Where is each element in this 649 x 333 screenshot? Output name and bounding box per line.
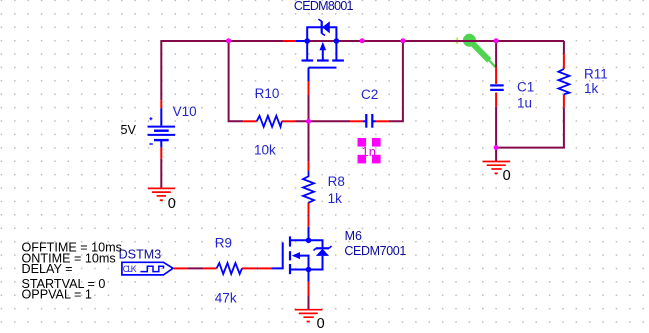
resistor R8 xyxy=(303,171,314,203)
pin stub U1 source xyxy=(283,40,296,42)
svg-text:R10: R10 xyxy=(255,86,280,101)
channel bars xyxy=(302,59,314,61)
probe marker tick xyxy=(456,38,458,44)
pin stub C2 right xyxy=(376,120,389,122)
node junction top C2 branch xyxy=(400,38,405,43)
gate lead xyxy=(271,242,282,268)
capacitor C1 xyxy=(490,85,504,90)
wire C1 bottom to ground node xyxy=(495,107,497,162)
pin stub C2 left xyxy=(350,120,363,122)
svg-text:CEDM7001: CEDM7001 xyxy=(344,244,406,258)
wire node down to R8 xyxy=(308,121,310,161)
node junction top R10 branch xyxy=(226,38,231,43)
svg-text:1k: 1k xyxy=(328,191,343,206)
pin stub V10 plus xyxy=(160,100,162,108)
resistor R10 xyxy=(257,116,282,127)
wire gate of U1 down to node xyxy=(308,95,310,122)
pin stub R11 bottom xyxy=(563,94,565,108)
parameter text block 1 xyxy=(22,241,122,276)
pin stub R10 right xyxy=(282,120,295,122)
body diode loop xyxy=(309,240,323,248)
wire top net horizontal right xyxy=(307,40,564,42)
flag outline xyxy=(122,262,173,275)
wire C2 right up to top xyxy=(389,41,403,121)
svg-text:47k: 47k xyxy=(215,290,237,305)
wire R11 top vertical xyxy=(563,41,565,54)
resistor R9 xyxy=(217,263,242,274)
svg-text:0: 0 xyxy=(317,316,325,332)
parameter text block 2 xyxy=(22,277,106,302)
junction dot U1 source xyxy=(304,38,310,44)
selection handles C2 value xyxy=(358,138,381,163)
svg-text:1u: 1u xyxy=(517,96,532,111)
pin stub DSTM3 out xyxy=(174,267,187,269)
pin stub M6 source xyxy=(308,282,310,296)
ground under M6 xyxy=(295,310,323,322)
transistor U1 CEDM8001 PMOS xyxy=(302,19,344,81)
zener hook top xyxy=(318,19,321,21)
svg-text:1n: 1n xyxy=(362,144,376,159)
pin stub R11 top xyxy=(563,54,565,69)
svg-text:C2: C2 xyxy=(361,87,378,102)
wire C1 node to R11 bottom xyxy=(496,108,564,148)
wire top to C1 xyxy=(495,41,497,67)
junction dot U1 drain xyxy=(334,38,340,44)
substrate arrow U1 xyxy=(320,42,327,50)
svg-text:R11: R11 xyxy=(584,66,608,81)
pin stub R9 left xyxy=(203,267,216,269)
diode cathode bar xyxy=(321,21,323,34)
pin stub R10 left xyxy=(243,120,257,122)
pin stub M6 drain xyxy=(308,217,310,227)
wire V10 top vertical xyxy=(160,40,162,100)
wire M6 source to ground xyxy=(308,295,310,309)
resistor R11 xyxy=(558,69,569,94)
pin stub R9 right xyxy=(242,267,256,269)
pin stub R8 top xyxy=(308,161,310,171)
ground under C1 xyxy=(483,162,510,174)
gate lead xyxy=(308,68,310,81)
pin stub M6 gate xyxy=(258,267,271,269)
svg-text:1k: 1k xyxy=(584,81,599,96)
gate plate xyxy=(309,67,337,69)
svg-text:5V: 5V xyxy=(121,123,137,137)
pin stub R8 bottom xyxy=(308,202,310,214)
junction dot M6 source xyxy=(306,267,312,273)
svg-text:0: 0 xyxy=(168,196,176,212)
node junction R10 R8 gate xyxy=(306,119,311,124)
node junction top mid xyxy=(360,38,365,43)
svg-text:0: 0 xyxy=(503,168,511,184)
zener hook bottom xyxy=(322,33,325,35)
svg-text:V10: V10 xyxy=(173,104,197,119)
svg-text:M6: M6 xyxy=(345,229,362,243)
diode triangle M6 xyxy=(316,249,329,256)
wire R10 to C2 row xyxy=(295,120,350,122)
svg-text:OPPVAL = 1: OPPVAL = 1 xyxy=(22,287,92,301)
node junction top C1 branch xyxy=(494,38,499,43)
svg-text:CLK: CLK xyxy=(123,264,137,274)
zener hook left xyxy=(314,248,316,250)
voltage probe xyxy=(463,34,496,68)
wire DSTM3 to R9 xyxy=(187,267,203,269)
svg-text:R9: R9 xyxy=(215,236,232,251)
substrate arrow M6 xyxy=(292,252,300,259)
wire R8 to M6 drain xyxy=(308,215,310,217)
ground under V10 xyxy=(148,188,175,200)
svg-text:C1: C1 xyxy=(517,80,534,95)
wire branch to R10 xyxy=(229,41,244,121)
body diode loop xyxy=(307,27,336,41)
zener hook right xyxy=(329,246,332,248)
pin stub V10 minus xyxy=(160,147,162,159)
pin stub C1 bottom xyxy=(495,93,497,107)
diode cathode bar xyxy=(316,247,329,249)
svg-text:DSTM3: DSTM3 xyxy=(119,247,162,261)
lead U1 source blue xyxy=(296,40,306,42)
node junction C1 ground xyxy=(494,145,499,150)
body stub xyxy=(300,256,309,270)
wire R9 to M6 gate xyxy=(256,267,258,269)
svg-text:DELAY =: DELAY = xyxy=(22,262,73,276)
svg-text:R8: R8 xyxy=(328,174,345,189)
wire V10 bottom to ground xyxy=(160,159,162,188)
drain stub xyxy=(290,227,309,241)
svg-text:CEDM8001: CEDM8001 xyxy=(294,0,354,13)
stimulus DSTM3 xyxy=(122,262,173,275)
wire top net horizontal left xyxy=(161,40,284,42)
pin stub C1 top xyxy=(495,67,497,84)
diode triangle U1 xyxy=(322,21,330,33)
capacitor C2 xyxy=(363,114,376,128)
source stub xyxy=(290,270,309,282)
clock waveform xyxy=(140,266,163,271)
voltage source V10 xyxy=(148,108,176,147)
pin stub U1 gate xyxy=(308,81,310,95)
junction dot M6 drain xyxy=(306,238,312,244)
svg-text:10k: 10k xyxy=(254,142,276,157)
transistor M6 CEDM7001 NMOS xyxy=(271,227,331,282)
channel verticals xyxy=(306,41,308,60)
channel bars xyxy=(289,236,291,246)
